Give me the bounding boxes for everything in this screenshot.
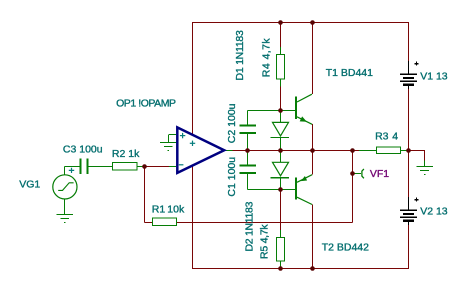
svg-text:VG1: VG1 [19,178,40,190]
svg-text:R5 4,7k: R5 4,7k [259,224,271,259]
svg-text:R2 1k: R2 1k [112,148,140,160]
svg-text:R4 4,7k: R4 4,7k [260,38,272,78]
svg-text:C1 100u: C1 100u [226,157,238,197]
svg-text:10k: 10k [167,204,185,216]
svg-text:D1 1N1183: D1 1N1183 [234,30,246,81]
svg-text:T1 BD441: T1 BD441 [326,67,373,79]
svg-text:VF1: VF1 [370,168,389,180]
svg-text:V1 13: V1 13 [420,71,448,83]
svg-text:D2 1N1183: D2 1N1183 [243,201,255,251]
svg-text:C3 100u: C3 100u [63,144,103,156]
svg-text:T2 BD442: T2 BD442 [322,241,369,253]
svg-text:V2 13: V2 13 [420,206,448,218]
svg-text:4: 4 [392,130,398,142]
svg-text:C2 100u: C2 100u [226,103,238,143]
svg-text:R3: R3 [375,130,389,142]
svg-text:OP1 !OPAMP: OP1 !OPAMP [116,98,176,110]
svg-text:R1: R1 [152,204,166,216]
